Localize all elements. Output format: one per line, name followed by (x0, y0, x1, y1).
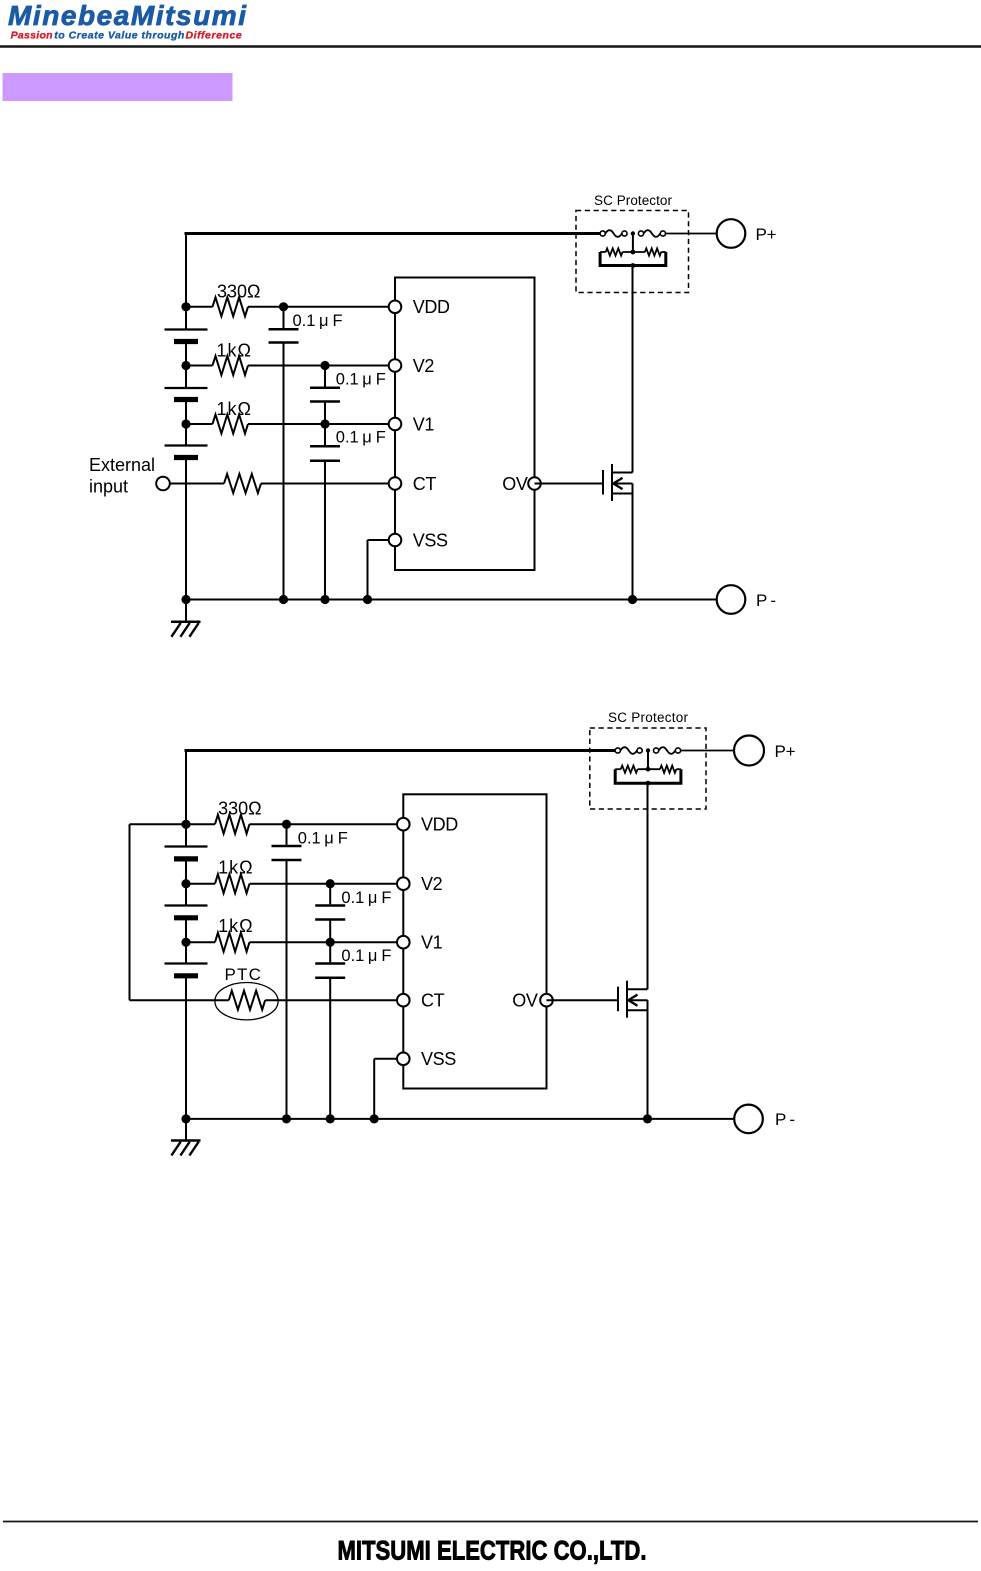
node ground rail left (181, 595, 190, 604)
svg-text:VSS: VSS (413, 530, 448, 550)
battery B1 cell 2 (185, 366, 187, 389)
resistor R1 330ohm (186, 306, 213, 308)
svg-text:SC Protector: SC Protector (608, 710, 689, 725)
node C2 top junction on V2 wire (320, 361, 329, 370)
svg-text:V2: V2 (421, 874, 443, 894)
wire fuse to P+ terminal circuit 2 (681, 750, 735, 752)
battery B2 cell 1 (185, 824, 187, 846)
pin VDD (389, 301, 402, 314)
svg-text:SC Protector: SC Protector (594, 193, 673, 208)
wire battery negative to ground rail (185, 458, 187, 600)
node ground rail left circuit 2 (181, 1114, 190, 1123)
resistor R7 1kohm (186, 941, 215, 943)
svg-text:VDD: VDD (413, 297, 450, 317)
svg-text:CT: CT (421, 991, 445, 1011)
svg-text:1kΩ: 1kΩ (218, 857, 253, 877)
op-amp U2 protection IC body (403, 794, 546, 1088)
svg-text:MinebeaMitsumi: MinebeaMitsumi (8, 0, 247, 31)
node C3 bottom on ground rail (320, 595, 329, 604)
resistor R2 1kohm (186, 365, 213, 367)
wire battery negative to ground rail circuit 2 (185, 976, 187, 1119)
pin OV (528, 477, 541, 490)
resistor R5 330ohm (186, 823, 215, 825)
pin V1 (389, 418, 402, 431)
SC protector dashed outline (576, 211, 689, 293)
terminal P+ circuit 2 (734, 736, 764, 766)
svg-text:P+: P+ (775, 742, 796, 761)
node C3 top junction on V1 wire (320, 419, 329, 428)
svg-text:input: input (89, 476, 128, 496)
wire OV pin to MOSFET gate (535, 483, 604, 485)
svg-text:1kΩ: 1kΩ (218, 916, 253, 936)
header rule (0, 45, 981, 47)
battery B1 cell 3 (185, 424, 187, 446)
capacitor C6 0.1uF (V1) (329, 942, 331, 962)
capacitor C3 0.1uF (V1) (324, 424, 326, 445)
node VSS on ground rail circuit 2 (370, 1114, 379, 1123)
wire PTC loop (left) (130, 823, 187, 825)
capacitor C2 0.1uF (V2) (324, 366, 326, 387)
capacitor C4 0.1uF (VDD) (286, 824, 288, 845)
node MOSFET source on ground rail (628, 595, 637, 604)
node battery top / 330ohm junction (181, 302, 190, 311)
terminal P- circuit 2 (734, 1105, 763, 1134)
node battery top junction circuit 2 (181, 820, 190, 829)
wire left battery rail circuit 2 (185, 751, 187, 825)
svg-text:MITSUMI ELECTRIC CO.,LTD.: MITSUMI ELECTRIC CO.,LTD. (338, 1536, 647, 1566)
svg-text:1kΩ: 1kΩ (217, 341, 252, 361)
capacitor C5 0.1uF (V2) (329, 884, 331, 905)
SC protector dashed outline circuit 2 (590, 728, 706, 809)
svg-text:330Ω: 330Ω (218, 799, 262, 819)
node battery cell junction V1 circuit 2 (181, 938, 190, 947)
pin V2 (389, 359, 402, 372)
svg-text:CT: CT (413, 474, 437, 494)
thermistor PTC1 (215, 983, 278, 1020)
wire left battery rail (185, 234, 187, 307)
svg-text:External: External (89, 455, 155, 475)
svg-text:OV: OV (512, 991, 538, 1011)
terminal external input (156, 477, 170, 491)
wire bottom ground rail (186, 599, 717, 601)
wire SC protector to MOSFET drain (632, 266, 634, 268)
svg-text:1kΩ: 1kΩ (217, 399, 252, 419)
svg-text:V1: V1 (413, 414, 435, 434)
node C1 bottom on ground rail (279, 595, 288, 604)
svg-text:VSS: VSS (421, 1049, 456, 1069)
svg-text:P+: P+ (756, 225, 777, 244)
pin CT U2 (397, 994, 410, 1007)
svg-text:330Ω: 330Ω (217, 281, 261, 301)
svg-text:P-: P- (775, 1110, 795, 1129)
transistor Q1 N-ch MOSFET (602, 470, 604, 495)
node C5 top junction circuit 2 (326, 879, 335, 888)
svg-text:PTC: PTC (225, 965, 263, 984)
svg-text:V2: V2 (413, 356, 435, 376)
fuse F1 dual element (600, 231, 605, 236)
node C4 bottom on ground rail (282, 1114, 291, 1123)
section title highlight box (3, 73, 233, 101)
resistor R6 1kohm (186, 883, 215, 885)
terminal P+ (717, 219, 746, 248)
pin CT (389, 477, 402, 490)
svg-text:P-: P- (756, 591, 776, 610)
pin V2 U2 (397, 877, 410, 890)
wire SC protector to MOSFET drain circuit 2 (647, 783, 649, 785)
wire VSS pin to ground rail (368, 539, 396, 541)
footer rule (3, 1521, 978, 1523)
pin VSS U2 (397, 1053, 410, 1066)
node C4 top junction circuit 2 (282, 820, 291, 829)
node battery cell1/cell2 - V2 junction (181, 361, 190, 370)
wire top positive rail (thick) circuit 2 (185, 749, 616, 752)
transistor Q2 N-ch MOSFET (617, 987, 619, 1012)
wire top positive rail (thick) (185, 232, 603, 235)
battery B1 cell 1 (185, 307, 187, 330)
svg-text:VDD: VDD (421, 815, 458, 835)
battery B2 cell 2 (185, 884, 187, 906)
node C1 top junction on VDD wire (279, 302, 288, 311)
capacitor C1 0.1uF (VDD) (283, 307, 285, 328)
heater resistors of SC protector circuit 2 (647, 751, 649, 770)
resistor R3 1kohm (186, 423, 213, 425)
ground (185, 600, 187, 622)
wire MOSFET source to ground rail (632, 484, 634, 600)
wire VSS pin to ground rail circuit 2 (374, 1058, 403, 1060)
pin VSS (389, 534, 402, 547)
heater resistors of SC protector (632, 234, 634, 253)
terminal P- (717, 585, 746, 614)
resistor R4 (external input series) (170, 483, 224, 485)
node battery cell junction V2 circuit 2 (181, 879, 190, 888)
wire bottom ground rail circuit 2 (186, 1118, 734, 1120)
node C6 bottom on ground rail (326, 1114, 335, 1123)
ground circuit 2 (185, 1119, 187, 1141)
battery B2 cell 3 (185, 942, 187, 963)
svg-text:OV: OV (502, 474, 528, 494)
node battery cell2/cell3 - V1 junction (181, 419, 190, 428)
svg-text:V1: V1 (421, 933, 443, 953)
node VSS on ground rail (363, 595, 372, 604)
node MOSFET source on ground rail circuit 2 (643, 1114, 652, 1123)
pin VDD U2 (397, 818, 410, 831)
pin OV U2 (540, 994, 553, 1007)
op-amp U1 protection IC body (395, 278, 535, 571)
svg-text:Passionto Create Value through: Passionto Create Value throughDifference (11, 29, 242, 41)
fuse F2 dual element (615, 748, 620, 753)
node C6 top junction circuit 2 (326, 938, 335, 947)
wire MOSFET source to ground rail circuit 2 (647, 1000, 649, 1119)
wire fuse to P+ terminal (666, 233, 717, 235)
wire OV pin to MOSFET gate circuit 2 (547, 999, 619, 1001)
pin V1 U2 (397, 936, 410, 949)
